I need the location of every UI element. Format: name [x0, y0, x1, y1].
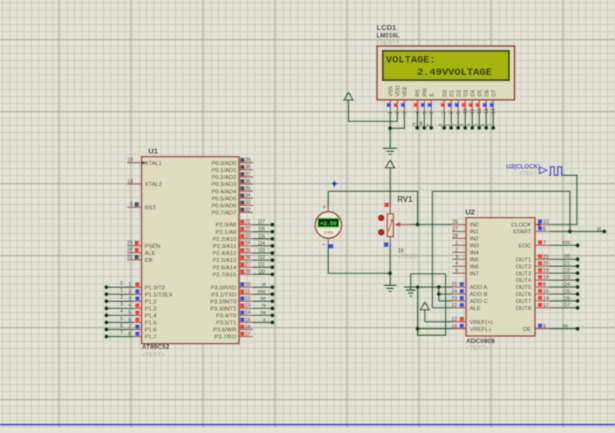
U1 pin 15 P3.5 [216, 317, 275, 326]
wire LCD e [426, 113, 434, 130]
junction ADD B [437, 292, 441, 296]
wire ADD B to U2 [439, 293, 453, 295]
svg-text:12: 12 [245, 296, 251, 302]
svg-text:27: 27 [452, 226, 458, 232]
U1 pin 5 P1.4 wire and net label 4 [104, 309, 157, 319]
U2 pin 8 OUT5 wire D4 [516, 282, 580, 291]
svg-text:4: 4 [120, 309, 123, 315]
svg-text:P1.5: P1.5 [145, 321, 157, 327]
svg-text:4: 4 [415, 111, 421, 114]
svg-text:e: e [426, 124, 432, 127]
U1 pin 36 P0.3/AD3 [211, 179, 252, 188]
U1 pin 7 P1.6 wire and net label 6 [104, 323, 156, 333]
svg-text:10: 10 [463, 108, 469, 114]
svg-text:P3.4/T0: P3.4/T0 [216, 314, 236, 320]
wire LCD data 7 [488, 113, 496, 130]
wire voltmeter minus down [327, 238, 329, 273]
svg-text:37: 37 [245, 172, 251, 178]
svg-text:P2.7/A15: P2.7/A15 [212, 272, 236, 278]
svg-text:OUT2: OUT2 [516, 264, 531, 270]
svg-text:3: 3 [455, 254, 458, 260]
svg-text:VOLTAGE:: VOLTAGE: [386, 54, 436, 66]
svg-text:st: st [262, 282, 267, 288]
svg-text:9: 9 [130, 202, 133, 208]
junction VSS VEE ground [388, 126, 392, 130]
svg-text:P0.4/AD4: P0.4/AD4 [211, 189, 237, 195]
U2 pin 7 EOC wire eoc [519, 240, 580, 249]
svg-text:26: 26 [245, 255, 251, 261]
svg-text:0: 0 [120, 281, 123, 287]
svg-text:6: 6 [481, 124, 487, 127]
U1 pin 26 P2.5/A13 wire and net label D2 [212, 255, 274, 264]
svg-text:35: 35 [245, 186, 251, 192]
U1 pin 31 EA [127, 255, 153, 264]
svg-text:IN3: IN3 [470, 243, 479, 249]
adc U2 body [466, 218, 535, 336]
svg-text:IN2: IN2 [470, 237, 479, 243]
svg-text:U2(CLOCK): U2(CLOCK) [506, 163, 540, 170]
wire LCD data 6 [481, 113, 489, 130]
svg-text:RS: RS [416, 89, 422, 97]
svg-text:9: 9 [456, 111, 462, 114]
U1 pin 25 P2.4/A12 wire and net label D3 [212, 248, 274, 257]
RV1 bottom terminal state square [384, 242, 389, 247]
wire LCD data 3 [460, 113, 468, 130]
RV1 top terminal state square [384, 203, 389, 208]
junction net A wiper [416, 222, 420, 226]
wire LCD data 5 [474, 113, 482, 130]
svg-text:OUT7: OUT7 [516, 299, 531, 305]
wire LCD rw [419, 113, 427, 130]
sheet border bottom [0, 424, 615, 426]
svg-text:D5: D5 [258, 234, 265, 240]
svg-text:IN6: IN6 [470, 264, 479, 270]
svg-text:17: 17 [245, 331, 251, 337]
wire VEE down and across [390, 113, 404, 128]
U1 pin 6 P1.5 wire and net label 5 [104, 316, 156, 326]
svg-text:OE: OE [523, 327, 532, 333]
svg-text:st: st [597, 226, 602, 232]
wire ADD C to U2 [439, 300, 453, 302]
wire RV1 bottom [389, 237, 391, 274]
svg-text:D0: D0 [564, 254, 571, 260]
svg-text:U2: U2 [465, 208, 475, 217]
svg-text:oe: oe [562, 324, 568, 330]
svg-text:6: 6 [429, 111, 435, 114]
svg-text:1: 1 [120, 288, 123, 294]
U2 pin 22 ALE [451, 303, 480, 312]
wire net A top horizontal [328, 191, 417, 224]
clock source waveform icon [549, 167, 563, 175]
svg-text:D5: D5 [478, 90, 484, 97]
svg-text:VREF(-): VREF(-) [470, 327, 491, 333]
svg-text:1: 1 [446, 124, 452, 127]
U2 pin 15 OUT6 wire D5 [516, 289, 580, 298]
svg-text:ADD C: ADD C [470, 299, 488, 305]
U1 pin 3 P1.2 wire and net label 2 [104, 295, 156, 305]
svg-text:23: 23 [451, 296, 457, 302]
svg-text:7: 7 [543, 240, 546, 246]
svg-text:IN4: IN4 [470, 250, 480, 256]
LCD1 pin 8 D1 [448, 90, 456, 114]
svg-text:3: 3 [402, 111, 408, 114]
LCD1 pin 4 RS [414, 89, 422, 114]
svg-text:25: 25 [451, 282, 457, 288]
svg-text:D4: D4 [258, 241, 265, 247]
U1 pin 21 P2.0/A8 wire and net label D7 [216, 219, 275, 228]
U1 pin 9 RST [127, 202, 156, 211]
svg-text:7: 7 [128, 324, 131, 330]
RV1 wiper arrow [394, 222, 410, 227]
svg-text:5: 5 [128, 310, 131, 316]
svg-text:19: 19 [543, 268, 549, 274]
RV1 adjust button down [378, 230, 384, 236]
U1 pin 28 P2.7/A15 wire and net label D0 [212, 269, 274, 278]
svg-text:LM016L: LM016L [377, 32, 400, 39]
svg-text:-: - [322, 240, 325, 249]
svg-text:AT89C52: AT89C52 [142, 344, 170, 351]
U1 pin 1 P1.0 wire and net label 0 [104, 281, 165, 291]
svg-text:+: + [322, 204, 326, 211]
svg-text:22: 22 [245, 227, 251, 233]
svg-text:OUT3: OUT3 [516, 271, 531, 277]
svg-text:P2.3/A11: P2.3/A11 [213, 244, 236, 250]
svg-text:2: 2 [120, 295, 123, 301]
svg-text:P3.0/RXD: P3.0/RXD [211, 285, 237, 291]
svg-text:VEE: VEE [403, 86, 409, 97]
svg-text:OUT6: OUT6 [516, 292, 531, 298]
wire LCD data 2 [453, 113, 461, 130]
wire VSS down [389, 113, 391, 128]
svg-text:36: 36 [245, 179, 251, 185]
svg-text:2: 2 [128, 289, 131, 295]
svg-text:EA: EA [145, 258, 153, 264]
svg-text:17: 17 [543, 303, 549, 309]
U2 pin 5 IN7 [452, 268, 479, 277]
svg-text:2: 2 [455, 247, 458, 253]
svg-text:6: 6 [543, 226, 546, 232]
svg-text:5: 5 [422, 111, 428, 114]
U1 pin 34 P0.5/AD5 [211, 193, 252, 202]
svg-text:P2.4/A12: P2.4/A12 [212, 251, 236, 257]
svg-text:P1.0/T2: P1.0/T2 [145, 285, 165, 291]
svg-text:D6: D6 [485, 90, 491, 97]
U1 pin 2 P1.1 wire and net label 1 [104, 288, 172, 298]
svg-text:<TEXT>: <TEXT> [142, 351, 165, 358]
svg-text:D3: D3 [464, 90, 470, 97]
svg-text:6: 6 [120, 323, 123, 329]
U2 pin 24 ADD B [451, 289, 487, 298]
U1 pin 18 XTAL2 [127, 179, 162, 188]
svg-text:D0: D0 [443, 90, 449, 97]
svg-text:16: 16 [245, 324, 251, 330]
svg-text:D5: D5 [564, 289, 571, 295]
svg-text:P3.2/INT0: P3.2/INT0 [210, 299, 236, 305]
power +5V terminal for VREF plus [420, 302, 429, 322]
svg-text:2.49VVOLTAGE: 2.49VVOLTAGE [417, 67, 492, 79]
U2 pin 19 OUT3 wire D2 [516, 268, 580, 277]
svg-text:14: 14 [491, 108, 497, 114]
wire LCD data 4 [467, 113, 475, 130]
svg-text:D3: D3 [258, 248, 265, 254]
wire RV1 wiper to U2 IN0 [410, 224, 452, 226]
svg-text:<TEXT>: <TEXT> [519, 171, 541, 177]
svg-text:OUT4: OUT4 [516, 278, 532, 284]
svg-text:P0.6/AD6: P0.6/AD6 [211, 204, 236, 210]
wire bottom net horizontal [328, 272, 390, 274]
wire ADD B C branch vertical [438, 287, 440, 301]
wire voltmeter plus to net [327, 191, 329, 212]
mcu U1 body [142, 157, 239, 344]
svg-text:XTAL1: XTAL1 [145, 161, 162, 167]
svg-text:5: 5 [474, 124, 480, 127]
svg-text:22: 22 [451, 303, 457, 309]
svg-text:D4: D4 [564, 282, 571, 288]
wire to ground under RV1 [389, 273, 391, 285]
svg-text:3: 3 [460, 124, 466, 127]
junction RV1 bottom ground [388, 271, 392, 275]
U1 pin 38 P0.1/AD1 [211, 165, 252, 174]
svg-text:LCD1: LCD1 [377, 23, 398, 32]
wire VDD to power [349, 113, 398, 121]
svg-text:14: 14 [543, 296, 549, 302]
svg-text:29: 29 [127, 241, 133, 247]
svg-text:1: 1 [455, 240, 458, 246]
clock source flag [540, 167, 547, 174]
svg-text:P1.2: P1.2 [145, 299, 157, 305]
svg-text:D7: D7 [492, 90, 498, 97]
svg-text:26: 26 [452, 220, 458, 226]
wire net B START ALE [432, 191, 570, 308]
svg-text:D1: D1 [564, 261, 571, 267]
svg-text:1k: 1k [398, 248, 405, 254]
svg-text:VSS: VSS [388, 86, 394, 97]
LCD1 pin 3 VEE [401, 86, 409, 114]
svg-text:D6: D6 [258, 227, 265, 233]
svg-text:1: 1 [128, 282, 131, 288]
U2 pin 18 OUT4 wire D3 [516, 275, 580, 284]
power +5V terminal for LCD VDD [344, 93, 353, 122]
U2 pin 28 IN2 [452, 233, 479, 242]
svg-text:VREF(+): VREF(+) [470, 320, 493, 326]
junction ADD A branch [437, 285, 441, 289]
svg-text:P2.6/A14: P2.6/A14 [212, 265, 237, 271]
svg-text:P0.1/AD1: P0.1/AD1 [211, 168, 236, 174]
wire clock to U2 CLOCK [550, 175, 577, 224]
ground for ADD pins [406, 287, 416, 296]
LCD1 pin 2 VDD [394, 85, 402, 114]
svg-text:D2: D2 [457, 90, 463, 97]
svg-text:IN0: IN0 [470, 223, 479, 229]
wire ADD A ground rail [404, 286, 452, 288]
U1 pin 32 P0.7/AD7 [211, 207, 252, 216]
svg-text:E: E [430, 93, 436, 97]
svg-text:20: 20 [543, 261, 549, 267]
wire LCD data 0 [439, 113, 447, 130]
svg-text:<TEXT>: <TEXT> [377, 40, 400, 46]
LCD1 body frame [377, 46, 515, 100]
svg-text:rs: rs [412, 122, 418, 127]
LCD1 pin 14 D7 [490, 90, 498, 114]
U1 pin 29 PSEN [127, 241, 161, 250]
svg-text:CLOCK: CLOCK [511, 223, 531, 229]
U1 pin 37 P0.2/AD2 [211, 172, 252, 181]
svg-text:P1.4: P1.4 [145, 314, 158, 320]
svg-text:1: 1 [388, 111, 394, 114]
svg-text:0: 0 [439, 124, 445, 127]
U1 pin 12 P3.2 [210, 296, 274, 305]
svg-text:11: 11 [245, 289, 250, 295]
U1 pin 13 P3.3 [210, 303, 274, 312]
U1 pin 14 P3.4 [216, 310, 275, 319]
LCD1 pin 7 D0 [441, 90, 449, 114]
svg-text:8: 8 [449, 111, 455, 114]
svg-text:IN1: IN1 [470, 230, 479, 236]
wire power to RV1 top [389, 207, 391, 214]
svg-text:EOC: EOC [519, 243, 532, 249]
svg-text:P1.6: P1.6 [145, 328, 157, 334]
svg-text:ALE: ALE [145, 251, 156, 257]
svg-text:24: 24 [451, 289, 457, 295]
XTAL1 clock arrow marker [142, 161, 147, 165]
U2 pin 6 START wire st [513, 226, 607, 235]
svg-text:<TEXT>: <TEXT> [466, 346, 489, 352]
ground under RV1 [384, 285, 397, 291]
svg-text:P0.3/AD3: P0.3/AD3 [211, 182, 236, 188]
svg-text:9: 9 [543, 324, 546, 330]
U1 pin 23 P2.2/A10 wire and net label D5 [212, 234, 274, 243]
svg-text:P0.0/AD0: P0.0/AD0 [211, 161, 236, 167]
U2 pin 16 VREF(-) [451, 324, 491, 333]
wire ground loop upper [411, 274, 446, 335]
LCD1 pin 1 VSS [387, 86, 395, 114]
svg-text:P3.5/T1: P3.5/T1 [216, 321, 236, 327]
svg-text:12: 12 [451, 317, 457, 323]
voltmeter minus terminal state square [329, 244, 333, 248]
svg-text:23: 23 [245, 234, 251, 240]
junction ADD A rail tap [416, 285, 420, 289]
wire ALE to U2 [432, 307, 452, 309]
U1 pin 11 P3.1 [211, 289, 274, 298]
U2 pin 10 CLOCK [511, 219, 549, 228]
svg-text:P2.0/A8: P2.0/A8 [216, 223, 237, 229]
wire VREF minus [418, 328, 453, 330]
svg-text:OUT5: OUT5 [516, 285, 531, 291]
svg-text:8: 8 [543, 282, 546, 288]
svg-text:+2.50: +2.50 [320, 221, 336, 227]
svg-text:P3.6/WR: P3.6/WR [213, 328, 236, 334]
svg-text:ADC0808: ADC0808 [466, 338, 495, 345]
svg-text:P1.7: P1.7 [145, 335, 157, 341]
power +5V terminal for RV1 [386, 160, 395, 207]
LCD1 pin 6 E [428, 93, 436, 115]
LCD1 pin 11 D4 [469, 90, 477, 114]
svg-text:e: e [263, 317, 266, 323]
svg-text:19: 19 [127, 158, 133, 164]
U2 pin 17 OUT8 wire D7 [516, 303, 580, 312]
U2 pin 25 ADD A [451, 282, 487, 291]
svg-text:3: 3 [128, 296, 131, 302]
svg-text:12: 12 [477, 108, 483, 114]
U1 pin 8 P1.7 wire and net label 7 [104, 330, 156, 340]
svg-text:10: 10 [245, 282, 251, 288]
svg-text:D3: D3 [564, 275, 571, 281]
svg-text:D7: D7 [258, 220, 265, 226]
U2 pin 3 IN5 [452, 254, 479, 263]
svg-text:D2: D2 [258, 255, 265, 261]
svg-text:ALE: ALE [470, 306, 481, 312]
svg-text:ADD A: ADD A [470, 285, 488, 291]
svg-text:P0.5/AD5: P0.5/AD5 [211, 196, 236, 202]
svg-text:28: 28 [245, 269, 251, 275]
U2 pin 2 IN4 [452, 247, 479, 256]
svg-text:24: 24 [245, 241, 251, 247]
U2 pin 14 OUT7 wire D6 [516, 296, 580, 305]
U1 pin 4 P1.3 wire and net label 3 [104, 302, 156, 312]
svg-text:18: 18 [127, 179, 133, 185]
svg-text:P2.2/A10: P2.2/A10 [212, 237, 236, 243]
svg-text:16: 16 [451, 324, 457, 330]
svg-text:5: 5 [455, 268, 458, 274]
svg-text:32: 32 [245, 207, 251, 213]
svg-text:14: 14 [245, 310, 251, 316]
RV1 internal arrow [389, 220, 393, 232]
svg-text:START: START [513, 230, 532, 236]
svg-text:IN7: IN7 [470, 271, 479, 277]
svg-text:D1: D1 [450, 90, 456, 97]
voltmeter display [318, 218, 339, 227]
svg-text:18: 18 [543, 275, 549, 281]
U2 pin 1 IN3 [452, 240, 479, 249]
svg-text:D0: D0 [258, 269, 265, 275]
svg-text:5: 5 [120, 316, 123, 322]
U2 pin 20 OUT2 wire D1 [516, 261, 580, 270]
U2 pin 12 VREF(+) [451, 317, 492, 326]
svg-text:P1.1/T2EX: P1.1/T2EX [145, 292, 173, 298]
potentiometer RV1 body [387, 214, 393, 237]
U1 pin 35 P0.4/AD4 [211, 186, 252, 195]
svg-text:8: 8 [128, 331, 131, 337]
svg-text:RV1: RV1 [397, 195, 413, 204]
U1 pin 22 P2.1/A9 wire and net label D6 [216, 227, 275, 236]
svg-text:15: 15 [543, 289, 549, 295]
U2 pin 27 IN1 [452, 226, 479, 235]
svg-text:2: 2 [395, 111, 401, 114]
svg-text:7: 7 [488, 124, 494, 127]
svg-text:6: 6 [128, 317, 131, 323]
svg-text:P3.1/TXD: P3.1/TXD [211, 292, 236, 298]
svg-text:RST: RST [145, 205, 157, 211]
voltmeter origin marker [331, 180, 338, 187]
svg-text:oe: oe [260, 296, 266, 302]
svg-text:rw: rw [261, 310, 267, 316]
svg-text:7: 7 [442, 111, 448, 114]
U2 pin 21 OUT1 wire D0 [516, 254, 580, 263]
svg-text:rs: rs [262, 303, 267, 309]
U1 pin 39 P0.0/AD0 [211, 158, 252, 167]
LCD1 pin 9 D2 [455, 90, 463, 114]
svg-text:4: 4 [455, 261, 458, 267]
svg-text:15: 15 [245, 317, 251, 323]
svg-text:27: 27 [245, 262, 251, 268]
U1 pin 27 P2.6/A14 wire and net label D1 [212, 262, 274, 271]
voltmeter body [315, 212, 341, 238]
svg-text:33: 33 [245, 200, 251, 206]
svg-text:39: 39 [245, 158, 251, 164]
svg-text:OUT1: OUT1 [516, 257, 531, 263]
U2 pin 4 IN6 [452, 261, 479, 270]
svg-text:38: 38 [245, 165, 251, 171]
